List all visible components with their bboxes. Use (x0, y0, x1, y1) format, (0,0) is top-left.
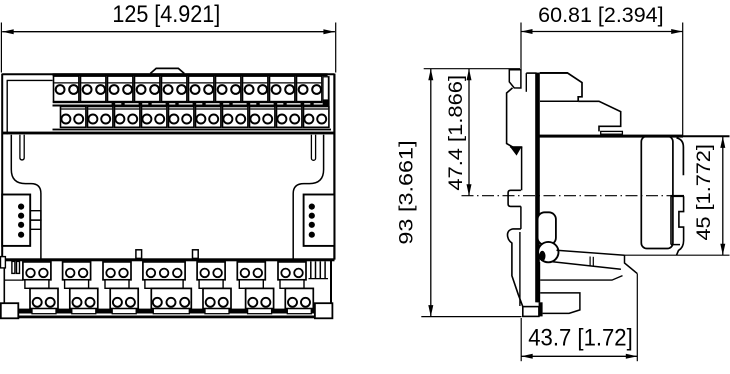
second row block 8 screw A (250, 115, 259, 124)
claw edge upper (520, 206, 522, 229)
second row terminal block 7 (223, 107, 248, 128)
top row terminal block 4 (135, 76, 160, 102)
second row block 9 screw B (290, 115, 299, 124)
bottom lower group 2 foot (72, 309, 96, 314)
dimension 45 top arrow (720, 136, 725, 148)
bottom upper group 5 screw 1 (200, 269, 209, 278)
second row block 7 inner line (223, 108, 247, 110)
second row block 6 screw B (209, 115, 218, 124)
bottom lower group 2 screw 2 (86, 298, 95, 307)
top row block 10 inner line (297, 82, 321, 84)
second row terminal block 6 (196, 107, 221, 128)
bottom upper group 7 screw 2 (294, 269, 303, 278)
left foot (1, 303, 19, 318)
bottom upper group 3 foot (105, 280, 129, 289)
top row block 7 screw A (218, 85, 227, 94)
right clip tooth line 4 (324, 261, 326, 278)
cover inner gap line (525, 73, 527, 92)
middle band tick down 6 (247, 101, 251, 105)
middle band tick up 1 (121, 102, 124, 106)
bottom lower group 7 screw 2 (301, 298, 310, 307)
inner contour right (293, 135, 323, 260)
side front face foot (539, 302, 543, 316)
middle band tick down 5 (220, 101, 224, 105)
second row block 9 inner line (277, 108, 301, 110)
left LED 2 (18, 213, 24, 219)
right LED 4 (309, 232, 315, 238)
side main horizontal band (537, 135, 683, 138)
second row block 3 screw B (128, 115, 137, 124)
pin tip wedge (512, 148, 521, 155)
top row block 4 inner line (135, 82, 159, 84)
second row block 8 screw B (263, 115, 272, 124)
second row terminal block 2 (88, 107, 113, 128)
top area rail 1 (53, 129, 332, 131)
dimension 45 top extension (676, 135, 730, 137)
svg-text:43.7 [1.72]: 43.7 [1.72] (528, 325, 633, 352)
second row terminal block 1 (61, 107, 86, 128)
bottom lower terminal group 3 (110, 288, 138, 308)
front body right edge lower (330, 260, 332, 317)
left LED 4 (18, 232, 24, 238)
dimension 125 line (2, 31, 335, 33)
dimension 43.7 right arrow (626, 354, 638, 359)
dimension 125 left extension line (0, 23, 2, 73)
top row block 2 screw A (83, 85, 92, 94)
second row block 1 screw A (61, 115, 70, 124)
top row block 10 screw B (312, 85, 321, 94)
left clip tooth 1 (12, 261, 15, 273)
front body bottom band (2, 258, 334, 261)
second row terminal block 9 (277, 107, 302, 128)
dimension 45 bottom extension (625, 254, 730, 256)
bottom lower group 3 screw 1 (113, 298, 122, 307)
dimension 43.7 left arrow (521, 354, 533, 359)
second row block 6 screw A (196, 115, 205, 124)
middle band tick down 7 (274, 101, 278, 105)
right LED 1 (309, 204, 315, 210)
lever grip tick 1 (589, 257, 591, 267)
roller-face junction (539, 251, 545, 261)
left connector box lower (30, 220, 41, 229)
bottom lower group 7 foot (287, 309, 311, 314)
bottom lower group 1 foot (32, 309, 56, 314)
bottom upper terminal group 4 (143, 262, 185, 280)
bottom upper terminal group 6 (237, 262, 265, 280)
dimension 45 line (722, 136, 724, 255)
left LED 1 (18, 204, 24, 210)
bottom lower group 6 foot (248, 309, 272, 314)
middle band tick up 8 (310, 102, 313, 106)
clip roller (538, 242, 558, 262)
bottom lower group 1 screw 2 (46, 298, 55, 307)
second row block 3 inner line (115, 108, 139, 110)
second row block 7 screw A (223, 115, 232, 124)
dimension 47.4 bottom arrow (467, 184, 472, 196)
bottom upper terminal group 5 (197, 262, 225, 280)
pin ledge line (510, 146, 522, 148)
bottom upper group 2 screw 1 (66, 269, 75, 278)
svg-text:47.4 [1.866]: 47.4 [1.866] (446, 75, 467, 191)
svg-text:60.81 [2.394]: 60.81 [2.394] (538, 4, 663, 27)
top mounting bump (150, 68, 184, 73)
right LED panel (304, 195, 335, 246)
bottom upper group 7 foot (280, 280, 304, 289)
top row terminal block 5 (162, 76, 187, 102)
second row terminal block 4 (142, 107, 167, 128)
second row block 4 screw B (155, 115, 164, 124)
latch right profile (677, 196, 684, 255)
second row terminal block 8 (250, 107, 275, 128)
latch top edge (671, 195, 685, 197)
second row block 2 screw B (101, 115, 110, 124)
middle band tick down 2 (139, 101, 143, 105)
bottom lower group 7 screw 1 (288, 298, 297, 307)
top row block 6 screw B (204, 85, 213, 94)
bottom lower group 4 screw 2 (167, 298, 176, 307)
left LED panel (2, 195, 30, 246)
cover top step edge (526, 72, 536, 74)
second row terminal block 3 (115, 107, 140, 128)
second row block 3 screw A (115, 115, 124, 124)
lever top edge (557, 250, 625, 255)
dimension 47.4 line (468, 69, 470, 196)
top blocks bottom bar (53, 101, 323, 103)
module lower rear line (540, 276, 622, 281)
claw foot (523, 307, 539, 317)
dimension 43.7 right extension (636, 274, 638, 362)
bottom upper group 6 foot (239, 280, 263, 289)
top strip upper bar (53, 73, 328, 76)
top row block 6 inner line (189, 82, 213, 84)
svg-text:125 [4.921]: 125 [4.921] (112, 1, 220, 28)
bottom upper terminal group 7 (278, 262, 306, 280)
bottom upper terminal group 2 (63, 262, 91, 280)
top row block 1 screw A (56, 85, 65, 94)
dimension 60.81 right arrow (671, 29, 683, 34)
top row block 9 screw B (285, 85, 294, 94)
side front face line (535, 73, 540, 303)
lower clip tab (508, 190, 521, 206)
second row block 9 screw A (277, 115, 286, 124)
terrace 2 left line (540, 100, 578, 102)
top row terminal block 2 (81, 76, 106, 102)
bottom lower group 6 screw 2 (261, 298, 270, 307)
dimension 125 right extension line (335, 23, 337, 73)
second row terminal block 10 (304, 107, 329, 128)
left LED 3 (18, 222, 24, 228)
right clip tooth line 2 (315, 261, 317, 278)
top row block 3 screw A (110, 85, 119, 94)
second row block 2 screw A (88, 115, 97, 124)
left lower edge (3, 268, 5, 304)
bottom lower group 5 screw 2 (219, 298, 228, 307)
right clip tooth line 1 (310, 261, 312, 278)
top row block 8 screw A (245, 85, 254, 94)
top row block 2 screw B (96, 85, 105, 94)
dimension 43.7 line (521, 355, 637, 357)
front body right edge upper (333, 74, 335, 260)
top row block 9 inner line (270, 82, 294, 84)
bottom lower group 4 screw 1 (153, 298, 162, 307)
middle band tick up 3 (175, 102, 178, 106)
bottom upper group 2 foot (65, 280, 89, 289)
left ledge line (4, 279, 23, 281)
dimension 93 top arrow (428, 69, 433, 81)
top row terminal block 9 (270, 76, 295, 102)
front body top edge (2, 73, 334, 75)
second row block 1 screw B (74, 115, 83, 124)
top row block 1 screw B (69, 85, 78, 94)
latch bottom edge (671, 244, 680, 246)
dimension 93 bottom extension (421, 316, 521, 318)
bottom upper group 3 screw 1 (106, 269, 115, 278)
bottom upper terminal group 3 (103, 262, 131, 280)
second row terminal block 5 (169, 107, 194, 128)
dimension 43.7 left extension (520, 318, 522, 361)
middle band tick down 1 (112, 101, 116, 105)
lower rail band (18, 309, 315, 314)
bottom upper group 3 screw 2 (119, 269, 128, 278)
bottom lower terminal group 7 (285, 288, 313, 308)
bottom lower group 5 foot (205, 309, 229, 314)
cover left profile (507, 88, 523, 148)
right LED 2 (309, 213, 315, 219)
second row block 10 screw B (317, 115, 326, 124)
left connector box upper (30, 211, 41, 220)
rail flange right edge (677, 138, 684, 176)
dimension 45 bottom arrow (720, 244, 725, 256)
claw inner line (519, 232, 521, 306)
bottom lower group 4 screw 3 (180, 298, 189, 307)
top row terminal block 7 (216, 76, 241, 102)
right ledge line (309, 278, 329, 280)
top row terminal block 1 (54, 76, 79, 102)
top row block 7 screw B (231, 85, 240, 94)
bottom lower group 3 screw 2 (126, 298, 135, 307)
dimension 60.81 right extension (682, 23, 684, 137)
right pin slot (311, 135, 315, 161)
right LED 3 (309, 222, 315, 228)
dimension 93 line (430, 69, 432, 317)
middle band tick down 8 (301, 101, 305, 105)
top row block 1 inner line (54, 82, 78, 84)
front body left edge (1, 74, 3, 260)
second row block 5 screw B (182, 115, 191, 124)
bottom base line (1, 316, 333, 319)
top row block 5 screw A (164, 85, 173, 94)
terrace 2 outline (578, 101, 621, 131)
bottom upper group 4 screw 2 (160, 269, 169, 278)
left pin slot (20, 135, 24, 160)
dimension 125 left arrow (2, 29, 14, 34)
second row block 4 screw A (142, 115, 151, 124)
side front face lower segment (537, 262, 541, 302)
lever bottom edge (553, 262, 621, 270)
lever tip (625, 255, 638, 273)
svg-text:93 [3.661]: 93 [3.661] (396, 140, 417, 244)
DIN rail centerline (462, 195, 671, 197)
second row block 1 inner line (61, 108, 85, 110)
clip spring housing (538, 212, 556, 244)
middle band tick up 2 (148, 102, 151, 106)
bottom upper group 5 foot (199, 280, 223, 289)
second row block 10 screw A (304, 115, 313, 124)
bottom upper group 1 foot (25, 280, 49, 289)
middle band tick down 3 (166, 101, 170, 105)
top row block 5 inner line (162, 82, 186, 84)
latch left edge (670, 196, 672, 244)
middle band tick up 4 (202, 102, 205, 106)
top row block 9 screw A (272, 85, 281, 94)
second row block 2 inner line (88, 108, 112, 110)
top row block 4 screw B (150, 85, 159, 94)
top row terminal block 8 (243, 76, 268, 102)
cover edge below pin (521, 147, 523, 190)
bottom lower terminal group 2 (70, 288, 98, 308)
bottom lower group 2 screw 1 (73, 298, 82, 307)
bottom lower group 6 screw 1 (248, 298, 257, 307)
bottom upper group 6 screw 1 (241, 269, 250, 278)
middle band tick down 4 (193, 101, 197, 105)
second row block 4 inner line (142, 108, 166, 110)
bottom face tab right (193, 250, 199, 259)
top area rail 2 full width (2, 132, 334, 135)
rear DIN block (641, 136, 673, 248)
top row terminal block 10 (297, 76, 322, 102)
upper clip tab (509, 70, 521, 88)
lever grip tick 2 (592, 257, 594, 267)
left clip tooth 2 (17, 261, 20, 273)
module bottom profile (540, 293, 580, 314)
dimension 125 right arrow (323, 29, 335, 34)
dimension 60.81 left extension (520, 23, 522, 70)
top row block 2 inner line (81, 82, 105, 84)
top row terminal block 3 (108, 76, 133, 102)
inner contour left (11, 135, 41, 260)
second row block 10 inner line (304, 108, 328, 110)
middle band tick up 6 (256, 102, 259, 106)
right foot (315, 303, 333, 318)
bottom upper group 4 screw 3 (173, 269, 182, 278)
top row right end cap (323, 76, 330, 105)
claw outer profile (507, 229, 522, 307)
terrace 1 top edge (540, 72, 568, 74)
bottom upper group 5 screw 2 (213, 269, 222, 278)
top row terminal block 6 (189, 76, 214, 102)
bottom upper group 1 screw 2 (39, 269, 48, 278)
top row block 3 inner line (108, 82, 132, 84)
bottom upper group 4 screw 1 (147, 269, 156, 278)
middle band tick up 7 (283, 102, 286, 106)
bottom upper group 7 screw 1 (281, 269, 290, 278)
bottom lower group 1 screw 1 (33, 298, 42, 307)
top row block 7 inner line (216, 82, 240, 84)
bottom lower terminal group 4 (151, 288, 191, 308)
second row block 5 inner line (169, 108, 193, 110)
bottom upper terminal group 1 (23, 262, 51, 280)
bottom upper group 4 foot (145, 280, 183, 289)
dimension 93 bottom arrow (428, 305, 433, 317)
left inner wall vertical (6, 80, 8, 134)
bottom lower terminal group 1 (30, 288, 58, 308)
bottom lower group 5 screw 1 (206, 298, 215, 307)
bottom lower group 4 foot (153, 309, 189, 314)
top row block 8 inner line (243, 82, 267, 84)
top row block 5 screw B (177, 85, 186, 94)
dimension 60.81 left arrow (521, 29, 533, 34)
second row block 8 inner line (250, 108, 274, 110)
bottom face tab left (136, 250, 142, 259)
left edge notch (1, 257, 6, 268)
bottom upper group 1 screw 1 (26, 269, 35, 278)
second row block 7 screw B (236, 115, 245, 124)
top row block 4 screw A (137, 85, 146, 94)
bottom upper group 6 screw 2 (253, 269, 262, 278)
bottom lower terminal group 5 (203, 288, 231, 308)
bottom lower group 3 foot (112, 309, 136, 314)
dimension 47.4 top arrow (467, 69, 472, 81)
middle band tick up 5 (229, 102, 232, 106)
middle bar (53, 105, 330, 107)
top row block 8 screw B (258, 85, 267, 94)
top row block 10 screw A (299, 85, 308, 94)
dimension 60.81 line (521, 31, 683, 33)
second row block 5 screw A (169, 115, 178, 124)
left inner wall horizontal (7, 79, 53, 81)
top row block 3 screw B (123, 85, 132, 94)
dimension 93/47.4 top extension (424, 68, 520, 70)
svg-text:45 [1.772]: 45 [1.772] (694, 144, 715, 240)
right clip tooth line 3 (319, 261, 321, 278)
bottom upper group 2 screw 2 (79, 269, 88, 278)
bottom lower terminal group 6 (246, 288, 274, 308)
second row block 6 inner line (196, 108, 220, 110)
terrace 2 plate (601, 131, 623, 134)
top row block 6 screw A (191, 85, 200, 94)
terrace 1 outline (540, 73, 582, 101)
